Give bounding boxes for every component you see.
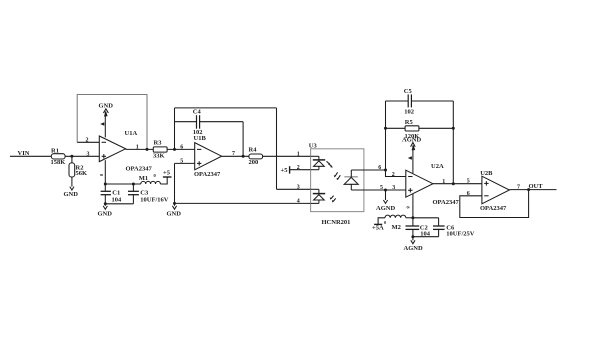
node pin5/pin4 junction (173, 202, 176, 205)
wire pin5 to AGND (385, 190, 387, 200)
svg-text:OUT: OUT (529, 183, 544, 190)
wire R4 to U3 pin1 (263, 155, 311, 157)
inductor M1 (139, 173, 161, 184)
capacitor C3 (128, 184, 169, 204)
ground (below C1) (98, 206, 113, 218)
svg-text:U3: U3 (309, 143, 318, 150)
svg-text:1: 1 (297, 151, 300, 157)
node output/feedback U2B (527, 188, 530, 191)
resistor R1 (51, 147, 66, 166)
svg-text:56K: 56K (76, 170, 88, 177)
svg-text:+5A: +5A (372, 224, 384, 231)
wire R2 to ground (71, 177, 73, 187)
wire supply rail (105, 183, 141, 185)
node bottom rail (104, 202, 107, 205)
power +5 (U3 pin2) (281, 166, 290, 174)
svg-text:GND: GND (64, 191, 79, 198)
svg-text:200: 200 (249, 159, 259, 166)
wire U1A feedback box (pin2 to output) (77, 95, 147, 150)
node VIN (10, 150, 51, 157)
photodiode PD2 (U3 pins 5-6) (344, 170, 358, 190)
svg-text:5: 5 (467, 179, 470, 185)
svg-text:OPA2347: OPA2347 (480, 205, 507, 212)
wire C4 down to output (242, 122, 244, 157)
svg-text:U2B: U2B (480, 170, 493, 177)
node rail-C3 (132, 183, 135, 186)
svg-text:U1A: U1A (125, 130, 138, 137)
svg-text:0: 0 (154, 173, 157, 178)
wire +5A to M2 (378, 218, 385, 225)
wire feedback right vertical (452, 101, 454, 184)
svg-text:R1: R1 (51, 147, 59, 154)
power +5A (372, 224, 384, 231)
capacitor C2 (406, 218, 431, 238)
svg-text:U2A: U2A (431, 163, 444, 170)
node bottom rail (411, 235, 414, 238)
node C4/output junction (242, 155, 245, 158)
svg-text:6: 6 (180, 145, 183, 151)
pin 4 U1A (arrow mark) (100, 122, 104, 126)
wire feedback vertical (174, 108, 176, 149)
svg-text:10UF/16V: 10UF/16V (140, 197, 168, 204)
svg-text:C5: C5 (404, 88, 413, 95)
resistor R4 (249, 146, 263, 166)
pin 4 U2A (arrow mark) (408, 156, 412, 160)
wire feedback left vertical (385, 101, 387, 170)
wire rail to C6 (413, 217, 439, 219)
wire junction to R2 (71, 156, 73, 163)
ground (below U1B pin5) (167, 206, 182, 218)
svg-text:M1: M1 (139, 175, 148, 182)
wire M2 to rail (406, 217, 413, 219)
svg-text:8: 8 (99, 174, 104, 177)
svg-text:GND: GND (98, 211, 113, 218)
wire U1A pin4 to GND (104, 111, 108, 138)
svg-text:AGND: AGND (404, 245, 423, 252)
op-amp U2A (406, 163, 460, 206)
resistor R3 (153, 140, 167, 160)
wire pin6 jog to U2A pin2 (386, 170, 406, 177)
wire U3 pin6 to U2A (351, 169, 385, 171)
wire pin2 stub (77, 141, 99, 143)
svg-text:4: 4 (297, 199, 300, 205)
wire +5 to U3 pin2 (290, 169, 311, 171)
power +5 (left) (163, 169, 172, 177)
ground AGND (bottom) (404, 240, 423, 252)
svg-text:R3: R3 (154, 140, 163, 147)
svg-text:3: 3 (392, 185, 395, 191)
wire to ground (104, 204, 106, 206)
resistor R2 (69, 163, 87, 177)
node pin5 junction (384, 189, 387, 192)
inductor M2 (384, 215, 406, 231)
node junction R1/R2 (70, 155, 73, 158)
svg-text:HCNR201: HCNR201 (322, 219, 351, 226)
wire R3 to U1B pin6 (167, 148, 195, 150)
svg-text:AGND: AGND (376, 205, 395, 212)
svg-text:5: 5 (380, 185, 383, 191)
svg-text:VIN: VIN (18, 150, 30, 157)
ground GND (above U1A) (99, 103, 114, 113)
svg-text:3: 3 (87, 152, 90, 158)
svg-text:+5: +5 (281, 167, 289, 174)
wire U2A output to U2B (433, 183, 482, 185)
node pin6 junction (384, 169, 387, 172)
node R5 right (452, 127, 455, 130)
wire to ground stub (174, 203, 176, 205)
wire U2A pin4 to AGND (412, 145, 416, 174)
svg-text:OPA2347: OPA2347 (126, 166, 153, 173)
node R5 left (384, 127, 387, 130)
wire U1A output (126, 148, 154, 150)
capacitor C4 (175, 109, 244, 137)
wire bottom rail C1-C3 (105, 203, 133, 205)
svg-text:0: 0 (384, 220, 387, 225)
wire U2A pin8 down (412, 194, 414, 218)
wire U3 pin5 to U2A pin3 (351, 189, 406, 191)
wire to AGND (412, 237, 414, 241)
svg-text:R4: R4 (249, 146, 258, 153)
svg-text:8: 8 (405, 206, 410, 209)
node R3/feedback junction (173, 148, 176, 151)
op-amp U2B (480, 170, 509, 212)
svg-text:2: 2 (297, 165, 300, 171)
svg-text:3: 3 (297, 184, 300, 190)
wire to U3 pin3 (277, 188, 311, 190)
svg-text:158K: 158K (51, 159, 66, 166)
capacitor C1 (101, 184, 122, 204)
wire U3 pin4 line (175, 202, 311, 204)
svg-text:GND: GND (167, 211, 182, 218)
op-amp U1B (194, 135, 222, 178)
LED (U3 pins 1-2) (311, 156, 333, 169)
wire M1 to +5 (160, 177, 167, 184)
node feedback/output (146, 148, 149, 151)
svg-text:AGND: AGND (402, 137, 421, 144)
svg-text:102: 102 (404, 108, 414, 115)
photodiode PD1 (U3 pins 3-4) (311, 189, 336, 203)
ground (below R2) (64, 187, 79, 198)
op-amp U1A (99, 130, 152, 173)
wire bottom rail C2-C6 (413, 236, 439, 238)
svg-text:10UF/25V: 10UF/25V (446, 230, 474, 237)
svg-text:2: 2 (392, 172, 395, 178)
wire outer feedback top (175, 107, 277, 109)
svg-text:OPA2347: OPA2347 (194, 171, 221, 178)
wire outer feedback right vertical (276, 108, 278, 189)
wire pin5 down to gnd net (174, 163, 176, 203)
capacitor C6 (433, 218, 475, 238)
wire U1A pin8 down to rail (104, 160, 106, 184)
node rail C2 (411, 216, 414, 219)
svg-text:M2: M2 (392, 224, 401, 231)
svg-text:+5: +5 (163, 169, 171, 176)
ground AGND (above U2A) (402, 137, 421, 147)
svg-text:OPA2347: OPA2347 (433, 199, 460, 206)
svg-text:C4: C4 (193, 109, 202, 116)
optocoupler U3 (309, 143, 364, 227)
ground AGND (below U3 pin5) (376, 200, 395, 212)
svg-text:R5: R5 (405, 119, 414, 126)
wire R1 to U1A pin3 (65, 155, 99, 157)
light arrows LED to PD2 (334, 172, 340, 180)
node rail-C1 (104, 183, 107, 186)
svg-text:6: 6 (378, 165, 381, 171)
wire U2B pin6 feedback (460, 190, 529, 218)
wire U2B output OUT (509, 189, 556, 191)
svg-text:U1B: U1B (194, 135, 207, 142)
resistor R5 (386, 119, 454, 140)
node output/feedback (452, 182, 455, 185)
wire U1B pin5 (175, 162, 195, 164)
capacitor C5 (386, 88, 454, 115)
wire U1B output (222, 155, 249, 157)
svg-text:33K: 33K (153, 153, 165, 160)
svg-text:104: 104 (112, 197, 123, 204)
